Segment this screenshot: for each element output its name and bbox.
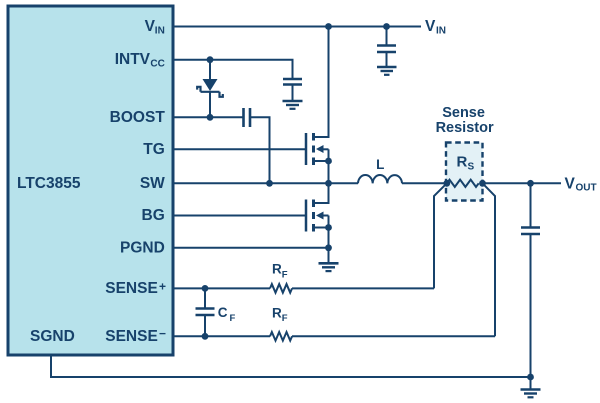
svg-text:C: C [218, 305, 228, 320]
svg-text:SW: SW [140, 175, 165, 192]
svg-text:SGND: SGND [30, 328, 75, 345]
svg-text:BOOST: BOOST [110, 109, 166, 126]
svg-text:R: R [272, 262, 282, 277]
svg-text:OUT: OUT [576, 183, 597, 194]
svg-text:+: + [159, 279, 166, 293]
svg-text:LTC3855: LTC3855 [17, 175, 81, 192]
svg-text:R: R [272, 305, 282, 320]
svg-text:SENSE: SENSE [105, 280, 158, 297]
svg-text:PGND: PGND [120, 239, 165, 256]
svg-text:IN: IN [155, 25, 165, 36]
svg-text:R: R [457, 154, 468, 171]
svg-text:CC: CC [150, 59, 164, 70]
svg-text:V: V [425, 18, 436, 35]
svg-text:F: F [282, 313, 288, 324]
svg-text:BG: BG [142, 207, 165, 224]
svg-text:F: F [282, 270, 288, 281]
svg-text:L: L [376, 157, 384, 172]
svg-text:S: S [468, 162, 475, 173]
svg-text:Sense: Sense [442, 105, 485, 121]
svg-text:V: V [565, 175, 576, 192]
svg-text:F: F [230, 313, 236, 324]
svg-text:SENSE: SENSE [105, 328, 158, 345]
svg-text:Resistor: Resistor [436, 120, 494, 136]
svg-text:IN: IN [436, 25, 446, 36]
svg-text:INTV: INTV [115, 51, 151, 68]
svg-text:TG: TG [143, 141, 165, 158]
svg-text:−: − [159, 326, 166, 340]
